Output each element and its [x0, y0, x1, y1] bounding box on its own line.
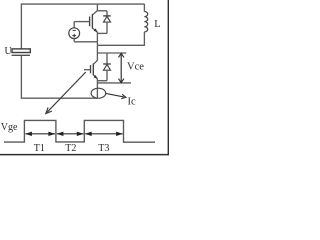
wire: D2 loop top and Vce top reference	[97, 52, 126, 54]
svg-text:Vce: Vce	[127, 62, 144, 73]
capacitor U bottom plate	[12, 54, 30, 56]
wire: Q2 emitter vertical	[96, 78, 98, 98]
wire: inductor bottom lead	[143, 32, 145, 46]
svg-text:U: U	[5, 46, 13, 57]
capacitor U top plate (hollow)	[12, 49, 30, 53]
wire: left bus upper	[20, 4, 22, 49]
svg-text:Vge: Vge	[1, 122, 18, 133]
frame right edge	[167, 0, 169, 155]
svg-text:T2: T2	[65, 143, 76, 154]
wire: Q1 gate lead	[74, 21, 89, 23]
wire: top bus	[21, 3, 145, 5]
wire: D2 loop bottom	[97, 80, 107, 82]
IGBT Q1 collector diagonal	[93, 11, 98, 15]
wire: bottom bus	[21, 97, 98, 99]
svg-text:L: L	[154, 19, 160, 30]
IGBT Q2 body bar	[92, 63, 94, 75]
wire: D1 anode lead	[106, 22, 108, 33]
wire: gate source return	[74, 41, 97, 43]
IGBT Q2 emitter diagonal with arrow	[94, 75, 98, 79]
wire: gate source top lead	[73, 22, 75, 28]
wire: D2 anode lead	[106, 70, 108, 81]
wire: gate source bottom lead	[73, 39, 75, 42]
IGBT Q2 collector diagonal	[94, 60, 98, 64]
IGBT Q1 body bar	[91, 14, 93, 29]
wire: D1 cathode lead	[106, 11, 108, 16]
IGBT Q2 gate bar	[90, 65, 92, 73]
diode D1 triangle	[104, 16, 111, 22]
wire: Q2 gate lead	[84, 69, 91, 71]
current probe ellipse	[91, 88, 106, 98]
gate source plus sign	[72, 35, 76, 37]
wire: D1 loop top	[97, 10, 107, 12]
T1 interval double arrow	[25, 133, 55, 135]
wire: Q1 collector stub	[96, 4, 98, 11]
gate source minus sign	[73, 29, 76, 31]
wire: D2 cathode lead	[106, 53, 108, 64]
wire: Q2 collector stub	[96, 45, 98, 60]
svg-text:T3: T3	[98, 143, 109, 154]
Vge waveform trace	[4, 120, 155, 142]
frame bottom edge	[0, 154, 169, 156]
svg-text:T1: T1	[34, 143, 45, 154]
T2 interval double arrow	[57, 133, 84, 135]
wire: Q1 emitter vertical	[96, 32, 98, 46]
Vce bottom reference line	[97, 82, 131, 84]
gate drive source circle	[69, 28, 80, 39]
diode D2 cathode bar	[103, 63, 111, 65]
wire: midpoint bus	[97, 44, 144, 46]
wire: left bus lower	[20, 56, 22, 98]
wire: D1 loop bottom	[97, 32, 107, 34]
IGBT Q1 emitter diagonal with arrow	[93, 28, 98, 32]
Ic arrow	[106, 93, 124, 97]
inductor L coil	[144, 12, 147, 32]
pointer arrow from Q2 gate to Vge pulse	[46, 72, 86, 114]
svg-text:Ic: Ic	[128, 97, 136, 108]
diode D1 cathode bar	[103, 15, 111, 17]
Vce double arrow	[120, 53, 122, 82]
diode D2 triangle	[104, 65, 111, 71]
wire: inductor top lead	[143, 4, 145, 12]
IGBT Q1 gate bar	[89, 17, 91, 27]
T3 interval double arrow	[85, 133, 122, 135]
